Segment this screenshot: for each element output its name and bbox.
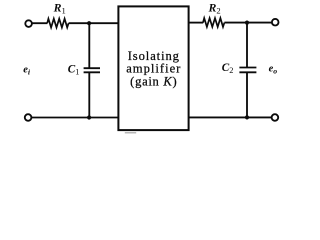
wire bbox=[246, 73, 248, 118]
wire bbox=[88, 73, 90, 118]
resistor R1 bbox=[47, 19, 68, 28]
svg-text:R1: R1 bbox=[53, 1, 66, 16]
svg-text:ei: ei bbox=[23, 65, 31, 77]
wire bbox=[32, 22, 48, 24]
output terminal (bottom right) bbox=[272, 114, 279, 121]
node: junction dot top-right bbox=[245, 21, 249, 25]
capacitor C2 bbox=[239, 68, 256, 73]
svg-text:C2: C2 bbox=[222, 62, 234, 75]
svg-text:eo: eo bbox=[269, 63, 278, 75]
wire bbox=[69, 22, 119, 24]
node: junction dot bottom-left bbox=[87, 115, 91, 119]
scan artifact under box bbox=[125, 132, 136, 133]
wire bbox=[246, 23, 248, 68]
input terminal (bottom left) bbox=[25, 114, 32, 121]
node: junction dot top-left bbox=[87, 21, 91, 25]
node: junction dot bottom-right bbox=[245, 115, 249, 119]
wire bbox=[88, 23, 90, 68]
wire (bottom rail right) bbox=[189, 116, 272, 118]
svg-text:(gain K): (gain K) bbox=[130, 74, 177, 88]
wire (bottom rail left) bbox=[32, 117, 119, 119]
output terminal (top right) bbox=[272, 19, 279, 26]
wire bbox=[189, 22, 204, 24]
op-amp U1: isolating amplifier block bbox=[118, 6, 188, 130]
svg-text:R2: R2 bbox=[208, 1, 221, 16]
svg-text:C1: C1 bbox=[68, 64, 80, 77]
capacitor C1 bbox=[84, 68, 100, 72]
wire bbox=[224, 22, 272, 24]
input terminal (top left) bbox=[25, 20, 32, 27]
resistor R2 bbox=[203, 18, 224, 27]
